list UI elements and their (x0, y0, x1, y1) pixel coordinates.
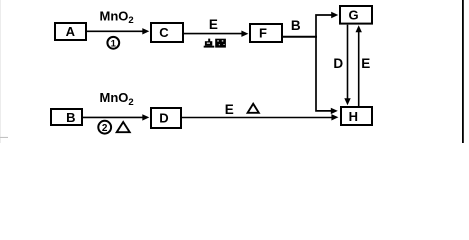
svg-text:D: D (333, 56, 343, 71)
svg-text:E: E (361, 56, 370, 71)
svg-text:B: B (66, 110, 75, 125)
label delta (heat, over D to H arrow) (248, 104, 259, 113)
svg-text:H: H (349, 109, 358, 124)
label delta (heat, after circled 2) (117, 122, 130, 132)
arrow into G (331, 12, 338, 18)
svg-text:B: B (291, 18, 301, 33)
junction vertical wire with corners (316, 15, 332, 111)
wire B to D (83, 114, 149, 120)
wire A to C (87, 28, 149, 34)
box H (341, 107, 372, 125)
svg-text:F: F (259, 26, 267, 41)
wire E (H up to G) (356, 25, 362, 106)
wire D (G down to H) (344, 25, 350, 106)
label dian (ignite char 1, drawn) (204, 39, 215, 48)
wire C to F (184, 31, 248, 37)
svg-text:C: C (159, 25, 169, 40)
svg-text:E: E (225, 102, 234, 117)
svg-text:D: D (159, 111, 168, 126)
svg-text:G: G (348, 8, 358, 23)
wire F to junction (283, 36, 317, 38)
label circled 1 (107, 37, 119, 50)
box B (51, 109, 82, 125)
box C (151, 23, 183, 42)
box D (151, 108, 181, 128)
page border right (462, 0, 464, 143)
wire D to H (182, 114, 338, 120)
svg-text:1: 1 (111, 38, 117, 49)
faint left page edge (0, 0, 1, 143)
label circled 2 (98, 121, 111, 134)
svg-text:2: 2 (102, 123, 108, 134)
svg-text:E: E (209, 17, 218, 32)
label ran (ignite char 2, drawn) (215, 39, 226, 48)
svg-text:A: A (66, 24, 76, 39)
box G (340, 6, 372, 24)
box F (250, 24, 282, 42)
box A (55, 23, 86, 40)
faint bottom-left rule (0, 137, 8, 138)
arrow into H (from branch) (331, 108, 338, 114)
